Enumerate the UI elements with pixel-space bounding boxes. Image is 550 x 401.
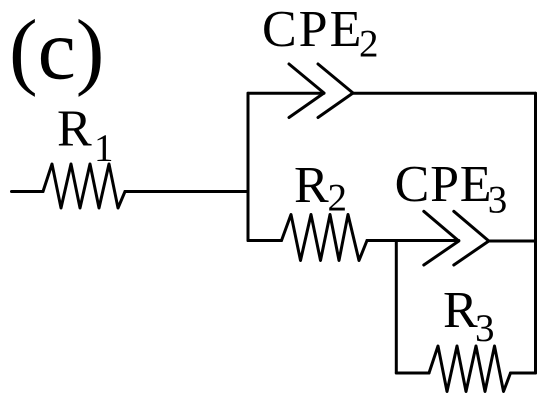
svg-text:3: 3: [475, 307, 495, 350]
CPE3 chevron 1: [424, 211, 459, 265]
resistor R3: [429, 346, 511, 392]
svg-text:R: R: [443, 282, 478, 339]
svg-text:CPE: CPE: [395, 156, 493, 213]
svg-text:R: R: [57, 101, 92, 158]
CPE2 chevron 2: [318, 64, 353, 118]
wire R2 to CPE3 apex: [367, 239, 459, 242]
wire right vertical: [534, 93, 537, 373]
node A left vertical of first parallel block: [247, 93, 250, 240]
wire R2 branch left: [248, 239, 282, 242]
svg-text:R: R: [294, 157, 329, 214]
svg-text:2: 2: [328, 177, 348, 220]
svg-text:(c): (c): [9, 2, 104, 98]
resistor R1: [43, 164, 125, 208]
wire CPE2 branch right: [353, 92, 536, 95]
node B left vertical of second parallel block: [395, 241, 398, 374]
wire R3 branch left: [396, 372, 429, 375]
svg-text:CPE: CPE: [262, 1, 363, 58]
wire CPE2 branch left: [248, 92, 324, 95]
wire R1 to node A: [125, 190, 248, 193]
CPE2 chevron 1: [289, 64, 324, 118]
svg-text:1: 1: [94, 127, 114, 170]
wire left lead: [12, 190, 44, 193]
resistor R2: [282, 215, 368, 261]
CPE3 chevron 2: [454, 211, 489, 265]
wire R3 branch right: [511, 372, 536, 375]
wire CPE3 branch right: [489, 240, 536, 243]
svg-text:3: 3: [488, 179, 508, 222]
svg-text:2: 2: [359, 23, 379, 66]
